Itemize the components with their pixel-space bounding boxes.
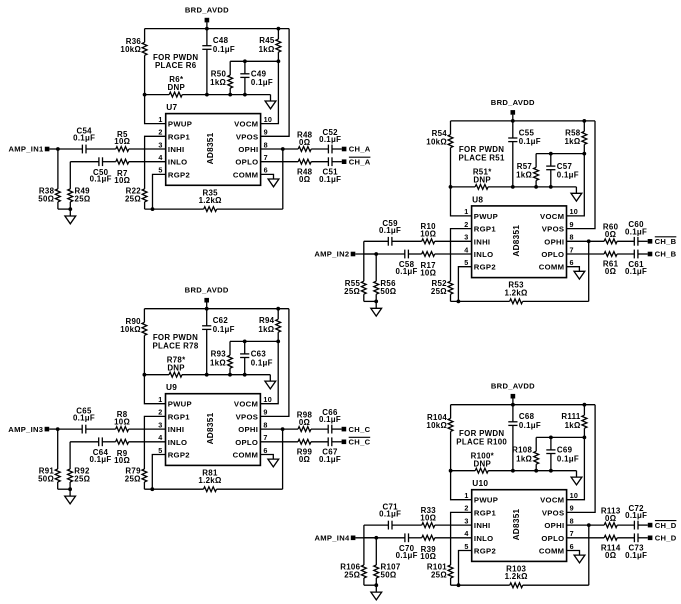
svg-text:25Ω: 25Ω bbox=[125, 195, 141, 204]
resistor R48 0ohm (OPLO series) bbox=[261, 159, 329, 184]
junction RGP2 / bottom rail bbox=[457, 583, 461, 587]
resistor R55 (left shunt) bbox=[344, 241, 366, 301]
svg-text:INLO: INLO bbox=[168, 438, 188, 447]
U8 pin 4 (INLO) bbox=[464, 245, 493, 259]
wire VOCM to sub rail bbox=[567, 437, 585, 499]
svg-text:R108: R108 bbox=[512, 446, 532, 455]
resistor R91 (left shunt) bbox=[38, 429, 60, 489]
svg-text:9: 9 bbox=[570, 504, 574, 513]
svg-text:RGP1: RGP1 bbox=[474, 508, 497, 517]
wire VOCM to sub rail bbox=[260, 341, 278, 403]
svg-text:C48: C48 bbox=[213, 36, 229, 45]
resistor R48 0ohm (OPHI series) bbox=[261, 130, 329, 151]
junction DNP row / mid cap bottom bbox=[243, 93, 247, 97]
svg-text:AMP_IN2: AMP_IN2 bbox=[314, 250, 349, 259]
svg-text:5: 5 bbox=[158, 446, 162, 455]
svg-text:CH_A: CH_A bbox=[349, 145, 371, 154]
port AMP_IN3 input terminal bbox=[8, 425, 49, 434]
junction DNP row / R top-left bottom bbox=[143, 373, 147, 377]
svg-text:1: 1 bbox=[158, 395, 162, 404]
resistor R51* DNP bbox=[451, 168, 577, 190]
port CH_D output bbox=[648, 534, 677, 543]
junction RGP2 / bottom rail bbox=[150, 487, 154, 491]
svg-text:0.1μF: 0.1μF bbox=[557, 171, 579, 180]
junction DNP row / mid res bottom bbox=[534, 185, 538, 189]
note FOR PWDN PLACE R100 bbox=[456, 429, 507, 446]
svg-text:C68: C68 bbox=[519, 412, 535, 421]
wire top supply rail bbox=[144, 308, 289, 310]
wire BRD_AVDD stem to rail bbox=[512, 115, 514, 121]
svg-text:0Ω: 0Ω bbox=[299, 418, 310, 427]
svg-text:2: 2 bbox=[158, 128, 162, 137]
port CH_B output bbox=[648, 250, 677, 259]
svg-text:1kΩ: 1kΩ bbox=[564, 137, 580, 146]
capacitor C68 0.1uF bbox=[508, 405, 541, 471]
junction input node bbox=[56, 427, 60, 431]
svg-text:DNP: DNP bbox=[168, 83, 186, 92]
svg-text:1: 1 bbox=[158, 115, 162, 124]
svg-text:RGP1: RGP1 bbox=[168, 132, 191, 141]
junction shunt ground node bbox=[374, 300, 378, 304]
svg-text:0.1μF: 0.1μF bbox=[557, 454, 579, 463]
wire VOCM to sub rail bbox=[567, 154, 585, 216]
junction on rail at C48 top bbox=[205, 27, 209, 31]
junction sub rail / cap bbox=[549, 152, 553, 156]
resistor R104 10k bbox=[426, 405, 453, 471]
op-amp U8 AD8351 bbox=[472, 194, 567, 277]
svg-text:0.1μF: 0.1μF bbox=[319, 175, 341, 184]
wire BRD_AVDD stem to rail bbox=[206, 302, 208, 308]
capacitor C60 0.1uF (OPHI coupling) bbox=[625, 220, 648, 246]
capacitor C57 0.1uF bbox=[546, 154, 579, 187]
svg-text:0.1μF: 0.1μF bbox=[625, 551, 647, 560]
resistor R54 10k bbox=[426, 121, 453, 187]
svg-text:0Ω: 0Ω bbox=[299, 455, 310, 464]
svg-text:10Ω: 10Ω bbox=[420, 268, 436, 277]
svg-text:R93: R93 bbox=[211, 350, 227, 359]
power net BRD_AVDD (U7) bbox=[185, 6, 229, 23]
svg-text:10Ω: 10Ω bbox=[114, 417, 130, 426]
svg-text:0.1μF: 0.1μF bbox=[519, 421, 541, 430]
svg-text:0.1μF: 0.1μF bbox=[73, 414, 95, 423]
junction DNP row / top cap bottom bbox=[511, 469, 515, 473]
resistor R8 10ohm (INHI series) bbox=[86, 410, 166, 432]
junction sub rail / VOCM line bbox=[276, 340, 280, 344]
resistor R56 (right shunt) bbox=[374, 254, 397, 301]
ground at COMM bbox=[567, 551, 585, 563]
junction DNP row / mid cap bottom bbox=[549, 185, 553, 189]
resistor R10 10ohm (INHI series) bbox=[392, 222, 472, 244]
svg-text:4: 4 bbox=[464, 529, 468, 538]
svg-text:INLO: INLO bbox=[474, 250, 494, 259]
svg-text:R50: R50 bbox=[211, 70, 227, 79]
svg-text:INLO: INLO bbox=[474, 534, 494, 543]
junction sub rail / cap bbox=[243, 59, 247, 63]
svg-text:0.1μF: 0.1μF bbox=[319, 135, 341, 144]
svg-text:0.1μF: 0.1μF bbox=[90, 175, 112, 184]
U8 pin 7 (OPLO) bbox=[541, 245, 573, 259]
svg-text:7: 7 bbox=[263, 433, 267, 442]
svg-text:25Ω: 25Ω bbox=[74, 475, 90, 484]
junction shunt ground node bbox=[374, 583, 378, 587]
svg-text:COMM: COMM bbox=[233, 451, 259, 460]
U8 pin 10 (VOCM) bbox=[540, 207, 578, 221]
svg-text:0.1μF: 0.1μF bbox=[625, 227, 647, 236]
capacitor C59 0.1uF (INHI coupling) bbox=[364, 219, 401, 246]
svg-text:AMP_IN1: AMP_IN1 bbox=[8, 145, 43, 154]
capacitor C64 0.1uF (INLO coupling) bbox=[70, 437, 111, 463]
svg-text:VPOS: VPOS bbox=[542, 508, 565, 517]
svg-text:1: 1 bbox=[464, 491, 468, 500]
power net BRD_AVDD (U8) bbox=[491, 98, 535, 115]
capacitor C55 0.1uF bbox=[508, 121, 541, 187]
capacitor C61 0.1uF (OPLO coupling) bbox=[625, 250, 648, 277]
svg-text:PWUP: PWUP bbox=[168, 400, 192, 409]
capacitor C66 0.1uF (OPHI coupling) bbox=[319, 408, 342, 434]
resistor R35 1.2k (feedback) bbox=[145, 188, 283, 211]
U7 pin 7 (OPLO) bbox=[235, 153, 267, 167]
svg-text:9: 9 bbox=[263, 408, 267, 417]
junction DNP row / top cap bottom bbox=[205, 93, 209, 97]
resistor R107 (right shunt) bbox=[374, 538, 401, 585]
svg-text:C57: C57 bbox=[557, 162, 573, 171]
svg-text:C55: C55 bbox=[519, 128, 535, 137]
resistor R52 25ohm (RGP1 series) bbox=[431, 229, 472, 302]
port CH_B (inverted) output bbox=[648, 237, 677, 246]
U7 pin 4 (INLO) bbox=[158, 153, 187, 167]
svg-text:0.1μF: 0.1μF bbox=[396, 267, 418, 276]
svg-text:2: 2 bbox=[158, 408, 162, 417]
svg-text:0.1μF: 0.1μF bbox=[379, 226, 401, 235]
U10 pin 1 (PWUP) bbox=[464, 491, 498, 505]
U8 pin 5 (RGP2) bbox=[464, 258, 496, 272]
capacitor C54 0.1uF (INHI coupling) bbox=[58, 127, 95, 154]
port CH_C output bbox=[342, 425, 371, 434]
svg-text:OPHI: OPHI bbox=[544, 237, 564, 246]
svg-text:1kΩ: 1kΩ bbox=[516, 454, 532, 463]
wire sub rail bbox=[230, 340, 278, 342]
svg-text:AMP_IN3: AMP_IN3 bbox=[8, 425, 43, 434]
resistor R90 10k bbox=[120, 309, 147, 375]
svg-text:0.1μF: 0.1μF bbox=[251, 358, 273, 367]
svg-text:10Ω: 10Ω bbox=[114, 176, 130, 185]
svg-text:RGP2: RGP2 bbox=[168, 451, 190, 460]
svg-text:25Ω: 25Ω bbox=[75, 195, 91, 204]
resistor R49 (right shunt) bbox=[68, 162, 91, 209]
svg-text:OPHI: OPHI bbox=[238, 425, 258, 434]
capacitor C49 0.1uF bbox=[240, 61, 273, 94]
svg-text:5: 5 bbox=[464, 542, 468, 551]
note FOR PWDN PLACE R78 bbox=[152, 333, 198, 350]
resistor R7 10ohm (INLO series) bbox=[103, 159, 166, 185]
resistor R114 0ohm (OPLO series) bbox=[567, 535, 635, 560]
svg-text:4: 4 bbox=[464, 245, 468, 254]
svg-text:PLACE R78: PLACE R78 bbox=[152, 341, 198, 350]
wire feedback riser to OPHI bbox=[282, 429, 284, 489]
svg-text:50Ω: 50Ω bbox=[38, 195, 54, 204]
svg-text:7: 7 bbox=[570, 245, 574, 254]
resistor R78* DNP bbox=[144, 355, 270, 377]
resistor R53 1.2k (feedback) bbox=[451, 281, 589, 304]
U10 pin 8 (OPHI) bbox=[544, 516, 574, 530]
wire RGP2 drop bbox=[152, 455, 165, 490]
svg-text:0Ω: 0Ω bbox=[605, 230, 616, 239]
svg-text:C63: C63 bbox=[251, 350, 267, 359]
svg-text:1: 1 bbox=[464, 207, 468, 216]
port CH_D (inverted) output bbox=[648, 521, 677, 530]
svg-text:CH_C: CH_C bbox=[349, 425, 371, 434]
U8 pin 3 (INHI) bbox=[464, 233, 490, 247]
svg-text:6: 6 bbox=[263, 446, 267, 455]
svg-text:10Ω: 10Ω bbox=[114, 456, 130, 465]
junction on rail at C62 top bbox=[205, 307, 209, 311]
svg-text:BRD_AVDD: BRD_AVDD bbox=[491, 382, 535, 391]
svg-text:50Ω: 50Ω bbox=[38, 475, 54, 484]
wire shunt bottom rail bbox=[58, 488, 70, 490]
ground at COMM bbox=[261, 174, 279, 186]
junction on rail at R45 top bbox=[277, 27, 281, 31]
U9 pin 3 (INHI) bbox=[158, 420, 184, 434]
svg-text:10: 10 bbox=[570, 491, 579, 500]
wire sub rail bbox=[230, 60, 278, 62]
svg-text:INHI: INHI bbox=[474, 521, 491, 530]
U8 pin 1 (PWUP) bbox=[464, 207, 498, 221]
wire top supply rail bbox=[451, 120, 596, 122]
capacitor C52 0.1uF (OPHI coupling) bbox=[319, 128, 342, 154]
resistor R92 (right shunt) bbox=[68, 442, 91, 489]
resistor R106 (left shunt) bbox=[340, 525, 366, 585]
capacitor C72 0.1uF (OPHI coupling) bbox=[625, 504, 648, 530]
resistor R60 0ohm (OPHI series) bbox=[567, 223, 635, 244]
U9 pin 2 (RGP1) bbox=[158, 408, 190, 422]
svg-text:8: 8 bbox=[264, 140, 268, 149]
svg-text:1.2kΩ: 1.2kΩ bbox=[198, 476, 221, 485]
U9 pin 7 (OPLO) bbox=[235, 433, 267, 447]
port CH_C (inverted) output bbox=[342, 437, 371, 446]
resistor R108 1k bbox=[512, 437, 539, 470]
resistor R100* DNP bbox=[451, 451, 577, 473]
U7 pin 1 (PWUP) bbox=[158, 115, 192, 129]
svg-text:R58: R58 bbox=[565, 128, 581, 137]
wire shunt bottom rail bbox=[364, 584, 376, 586]
svg-text:0.1μF: 0.1μF bbox=[519, 137, 541, 146]
U10 pin 10 (VOCM) bbox=[540, 491, 578, 505]
resistor R45 1k bbox=[259, 29, 281, 62]
capacitor C50 0.1uF (INLO coupling) bbox=[70, 157, 111, 183]
U9 pin 10 (VOCM) bbox=[234, 395, 272, 409]
junction on rail at C55 top bbox=[511, 119, 515, 123]
note FOR PWDN PLACE R6 bbox=[153, 53, 198, 70]
resistor R17 10ohm (INLO series) bbox=[408, 252, 471, 278]
svg-text:AD8351: AD8351 bbox=[206, 132, 215, 164]
svg-text:AMP_IN4: AMP_IN4 bbox=[314, 534, 349, 543]
svg-text:10kΩ: 10kΩ bbox=[426, 421, 447, 430]
junction on rail at R58 top bbox=[582, 119, 586, 123]
junction on rail at R94 top bbox=[276, 307, 280, 311]
svg-text:1.2kΩ: 1.2kΩ bbox=[505, 288, 528, 297]
svg-text:R111: R111 bbox=[561, 412, 581, 421]
U9 pin 5 (RGP2) bbox=[158, 446, 190, 460]
svg-text:U9: U9 bbox=[166, 382, 177, 392]
svg-text:10: 10 bbox=[263, 395, 272, 404]
U9 pin 8 (OPHI) bbox=[238, 420, 268, 434]
capacitor C69 0.1uF bbox=[546, 437, 579, 470]
svg-text:0Ω: 0Ω bbox=[299, 138, 310, 147]
U10 pin 6 (COMM) bbox=[539, 542, 574, 556]
wire PWUP to DNP row bbox=[451, 471, 472, 500]
junction sub rail / cap bbox=[549, 436, 553, 440]
svg-text:0.1μF: 0.1μF bbox=[379, 510, 401, 519]
U10 pin 4 (INLO) bbox=[464, 529, 493, 543]
wire VOCM to sub rail bbox=[261, 61, 279, 123]
junction sub rail / cap bbox=[243, 340, 247, 344]
junction DNP row / R top-left bottom bbox=[449, 469, 453, 473]
svg-text:10: 10 bbox=[570, 207, 579, 216]
svg-text:10Ω: 10Ω bbox=[420, 513, 436, 522]
junction DNP row / mid res bottom bbox=[228, 373, 232, 377]
wire RGP2 drop bbox=[459, 551, 472, 586]
svg-text:10Ω: 10Ω bbox=[114, 137, 130, 146]
op-amp U10 AD8351 bbox=[472, 478, 567, 561]
wire input terminal to junction bbox=[355, 537, 376, 539]
wire input terminal to junction bbox=[49, 148, 58, 150]
svg-text:CH_C: CH_C bbox=[349, 438, 371, 447]
resistor R57 1k bbox=[516, 154, 539, 187]
svg-text:PLACE R6: PLACE R6 bbox=[155, 61, 197, 70]
ground at DNP row end bbox=[571, 187, 582, 201]
svg-text:DNP: DNP bbox=[167, 363, 185, 372]
svg-text:25Ω: 25Ω bbox=[344, 571, 360, 580]
svg-text:RGP2: RGP2 bbox=[474, 263, 496, 272]
wire RGP2 drop bbox=[153, 174, 166, 209]
junction RGP2 / bottom rail bbox=[151, 207, 155, 211]
U8 pin 8 (OPHI) bbox=[544, 233, 574, 247]
power net BRD_AVDD (U10) bbox=[491, 382, 535, 399]
resistor R61 0ohm (OPLO series) bbox=[567, 252, 635, 277]
svg-text:0.1μF: 0.1μF bbox=[319, 455, 341, 464]
svg-text:COMM: COMM bbox=[539, 547, 565, 556]
ground below input shunts bbox=[65, 209, 76, 224]
svg-text:50Ω: 50Ω bbox=[380, 287, 396, 296]
svg-text:10Ω: 10Ω bbox=[420, 230, 436, 239]
wire VPOS to top rail bbox=[261, 29, 290, 137]
U7 pin 9 (VPOS) bbox=[236, 128, 268, 142]
wire feedback riser to OPHI bbox=[588, 241, 590, 301]
svg-text:BRD_AVDD: BRD_AVDD bbox=[185, 6, 229, 15]
svg-text:9: 9 bbox=[264, 128, 268, 137]
port AMP_IN2 input terminal bbox=[314, 250, 355, 259]
U10 pin 2 (RGP1) bbox=[464, 504, 496, 518]
svg-text:RGP2: RGP2 bbox=[474, 547, 496, 556]
junction DNP row / mid res bottom bbox=[228, 93, 232, 97]
junction input node bbox=[374, 536, 378, 540]
svg-text:PWUP: PWUP bbox=[474, 496, 498, 505]
junction sub rail / VOCM line bbox=[277, 59, 281, 63]
wire VPOS to top rail bbox=[260, 309, 289, 417]
wire input terminal to junction bbox=[49, 428, 58, 430]
wire top supply rail bbox=[145, 28, 290, 30]
resistor R94 1k bbox=[258, 309, 280, 342]
svg-text:CH_B: CH_B bbox=[655, 250, 677, 259]
svg-text:10kΩ: 10kΩ bbox=[426, 137, 447, 146]
svg-text:VOCM: VOCM bbox=[540, 212, 564, 221]
svg-text:C69: C69 bbox=[557, 446, 573, 455]
wire PWUP to DNP row bbox=[451, 187, 472, 216]
svg-text:RGP2: RGP2 bbox=[168, 170, 190, 179]
svg-text:CH_B: CH_B bbox=[655, 237, 677, 246]
wire PWUP to DNP row bbox=[145, 95, 166, 124]
resistor R58 1k bbox=[564, 121, 586, 154]
svg-text:CH_A: CH_A bbox=[349, 157, 371, 166]
junction DNP row / mid cap bottom bbox=[549, 469, 553, 473]
ground below input shunts bbox=[65, 489, 76, 504]
svg-text:BRD_AVDD: BRD_AVDD bbox=[491, 98, 535, 107]
svg-text:INHI: INHI bbox=[168, 425, 185, 434]
capacitor C58 0.1uF (INLO coupling) bbox=[364, 250, 418, 276]
svg-text:OPLO: OPLO bbox=[541, 250, 564, 259]
junction RGP2 / bottom rail bbox=[457, 300, 461, 304]
svg-text:PLACE R51: PLACE R51 bbox=[459, 154, 505, 163]
junction feedback / OPHI bbox=[281, 147, 285, 151]
U7 pin 6 (COMM) bbox=[233, 166, 268, 180]
svg-text:50Ω: 50Ω bbox=[381, 571, 397, 580]
svg-text:CH_D: CH_D bbox=[655, 521, 677, 530]
U8 pin 6 (COMM) bbox=[539, 258, 574, 272]
U8 pin 2 (RGP1) bbox=[464, 220, 496, 234]
U7 pin 10 (VOCM) bbox=[234, 115, 272, 129]
svg-text:VOCM: VOCM bbox=[234, 400, 258, 409]
resistor R39 10ohm (INLO series) bbox=[409, 535, 472, 561]
svg-text:0Ω: 0Ω bbox=[605, 514, 616, 523]
resistor R50 1k bbox=[210, 61, 232, 94]
junction feedback / OPHI bbox=[587, 523, 591, 527]
port AMP_IN1 input terminal bbox=[8, 145, 49, 154]
svg-text:1kΩ: 1kΩ bbox=[258, 325, 274, 334]
svg-text:1kΩ: 1kΩ bbox=[516, 171, 532, 180]
svg-text:CH_D: CH_D bbox=[655, 534, 677, 543]
U8 pin 9 (VPOS) bbox=[542, 220, 574, 234]
svg-text:1.2kΩ: 1.2kΩ bbox=[505, 572, 528, 581]
svg-text:0.1μF: 0.1μF bbox=[319, 415, 341, 424]
junction sub rail / VOCM line bbox=[582, 152, 586, 156]
svg-text:9: 9 bbox=[570, 220, 574, 229]
U7 pin 8 (OPHI) bbox=[238, 140, 268, 154]
wire top supply rail bbox=[451, 404, 595, 406]
junction DNP row / mid cap bottom bbox=[243, 373, 247, 377]
junction input node bbox=[56, 147, 60, 151]
svg-text:OPLO: OPLO bbox=[235, 158, 258, 167]
svg-text:25Ω: 25Ω bbox=[344, 287, 360, 296]
capacitor C48 0.1uF bbox=[202, 29, 235, 95]
wire BRD_AVDD stem to rail bbox=[206, 22, 208, 28]
svg-text:RGP1: RGP1 bbox=[474, 225, 497, 234]
wire shunt bottom rail bbox=[58, 208, 70, 210]
junction shunt ground node bbox=[68, 207, 72, 211]
U7 pin 2 (RGP1) bbox=[158, 128, 190, 142]
svg-text:AD8351: AD8351 bbox=[206, 412, 215, 444]
svg-text:RGP1: RGP1 bbox=[168, 412, 191, 421]
svg-text:0.1μF: 0.1μF bbox=[625, 511, 647, 520]
junction feedback / OPHI bbox=[281, 427, 285, 431]
svg-text:3: 3 bbox=[464, 233, 468, 242]
svg-text:25Ω: 25Ω bbox=[431, 287, 447, 296]
svg-text:INLO: INLO bbox=[168, 158, 188, 167]
svg-text:25Ω: 25Ω bbox=[125, 475, 141, 484]
capacitor C62 0.1uF bbox=[202, 309, 235, 375]
resistor R22 25ohm (RGP1 series) bbox=[125, 136, 166, 209]
resistor R5 10ohm (INHI series) bbox=[86, 130, 166, 152]
wire VPOS to top rail bbox=[567, 121, 596, 229]
